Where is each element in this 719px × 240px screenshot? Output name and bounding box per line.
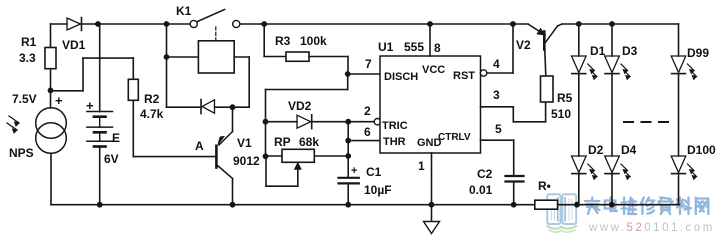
svg-text:6: 6 [364,125,371,139]
node LED column1 bottom [574,202,580,208]
LED D99 [671,56,686,73]
svg-text:www.520101.com: www.520101.com [588,222,715,234]
wire D4 bottom [611,174,613,205]
wire pin4 to rail [487,72,513,74]
diode VD1 [67,18,81,30]
node RP right junction [345,153,351,159]
light arrows into NPS [9,116,19,123]
node relay branch junction on top rail [164,21,170,27]
node A1 below R1 [48,88,54,94]
svg-text:6V: 6V [104,152,119,166]
wire NPS bottom to rail [50,153,52,204]
node battery top junction [95,21,101,27]
svg-text:4.7k: 4.7k [140,107,164,121]
wire to relay coil [167,56,199,58]
svg-text:7: 7 [365,57,372,71]
svg-text:9012: 9012 [233,154,260,168]
LED D1 [578,24,580,56]
svg-text:+: + [351,165,357,177]
resistor R-star [535,200,558,209]
svg-text:D99: D99 [687,46,709,60]
transistor V2 [543,32,546,50]
svg-text:510: 510 [551,107,571,121]
svg-text:100k: 100k [300,34,327,48]
node D3 top junction [609,21,615,27]
svg-text:68k: 68k [299,135,319,149]
LED D4 [605,156,620,173]
svg-text:R1: R1 [21,35,37,49]
svg-text:+: + [86,98,94,113]
wire NPS node bus [51,90,84,92]
svg-text:7.5V: 7.5V [12,92,37,106]
svg-text:R•: R• [538,179,551,193]
svg-text:V2: V2 [516,38,531,52]
wire V1 emitter vertical [232,107,234,131]
svg-text:RP: RP [274,135,291,149]
node R3 branch junction [261,21,267,27]
wire R1 bottom [50,69,52,91]
wire bottom rail left [51,204,535,206]
svg-text:K1: K1 [176,4,192,18]
freewheel diode [200,100,202,114]
node pin2 wire junction [345,119,351,125]
capacitor C2 [506,175,524,177]
watermark background group [547,194,715,234]
svg-text:RST: RST [453,70,475,82]
wire K1 actuator dashed [215,27,217,40]
node V1 collector junction [230,104,236,110]
svg-text:D1: D1 [590,44,606,58]
wire pin2/6 column [347,122,349,178]
transistor V1 [215,146,218,168]
svg-text:C2: C2 [477,167,493,181]
svg-text:10µF: 10µF [364,183,392,197]
wire pin8 [429,24,431,56]
svg-text:D4: D4 [621,143,637,157]
svg-text:R2: R2 [144,92,160,106]
svg-text:U1: U1 [378,40,394,54]
wire D1-D2 [578,74,580,156]
watermark text: pseudo glyphs [585,198,708,215]
svg-text:5: 5 [495,122,502,136]
pin2 inversion bubble [374,119,380,125]
wire battery column top [99,24,101,112]
svg-text:D2: D2 [588,143,604,157]
pin4 inversion bubble [480,70,486,76]
wire D3-D4 [611,74,613,156]
svg-text:VD2: VD2 [288,99,312,113]
node LED column2 bottom [609,202,615,208]
wire pin7 down to VD2 loop [347,74,349,90]
svg-text:+: + [55,93,63,108]
wire D100 bottom [678,174,680,205]
svg-text:V1: V1 [237,136,252,150]
diode VD2 [266,121,298,123]
switch K1 [190,20,197,27]
resistor R2 [128,79,138,100]
svg-text:TRIC: TRIC [382,120,408,132]
wire relay branch vertical [166,24,168,107]
node relay feed junction [164,54,170,60]
wire pin5 [481,139,514,141]
svg-text:VCC: VCC [422,64,445,76]
wire D99-D100 [678,74,680,156]
capacitor C1 [339,177,359,179]
wire top rail left segment [51,23,68,25]
wire battery bottom [99,147,101,205]
node RP left junction [263,153,269,159]
op-amp U1 555 box [380,56,481,153]
node V2 emitter junction [510,21,516,27]
svg-text:8: 8 [434,41,441,55]
wire R3 branch [263,24,265,57]
svg-text:1: 1 [418,159,425,173]
LED D2 [572,156,587,173]
wire V2 base to R5 [545,50,546,77]
solar cell NPS [36,108,67,139]
svg-text:555: 555 [404,40,424,54]
potentiometer RP [266,155,283,157]
svg-text:C1: C1 [366,165,382,179]
LED D3 [611,24,613,56]
node C1 bottom [345,202,351,208]
node C2 bottom [511,202,517,208]
wire R2 bottom to V1 base [132,100,134,156]
wire NPS top [50,90,52,108]
wire pin1 to ground [431,153,433,220]
svg-text:R3: R3 [275,34,291,48]
node V1 collector bottom [230,202,236,208]
node pin6 junction [345,138,351,144]
svg-text:E: E [112,131,120,145]
svg-text:D100: D100 [687,143,716,157]
wire relay right side [234,56,249,58]
svg-text:0.01: 0.01 [469,183,493,197]
svg-text:2: 2 [364,104,371,118]
svg-text:A: A [195,139,204,153]
watermark book icon [547,194,578,232]
battery E 6V [87,111,113,113]
relay coil K1 box [198,41,234,73]
wire D2 bottom [578,174,580,205]
svg-text:D3: D3 [622,44,638,58]
RP wiper arrow [295,163,301,170]
svg-text:THR: THR [383,136,406,148]
resistor R3 [286,52,309,61]
svg-text:NPS: NPS [9,146,34,160]
wire to pin2 bubble [348,121,374,123]
LED D100 [671,156,686,173]
node pin7 junction [345,71,351,77]
svg-text:3.3: 3.3 [19,51,36,65]
node battery bottom [97,202,103,208]
continuation dashes [624,121,670,123]
wire bottom rail right [558,204,680,206]
wire R3 to pin7 [309,56,348,58]
svg-text:DISCH: DISCH [384,71,418,83]
wire D99 corner [678,24,680,56]
svg-text:4: 4 [493,57,500,71]
wire pin3 OUT [481,106,514,108]
wire diode to left rail [167,106,202,108]
wire top-left corner down to R1 [50,24,52,48]
resistor R1 [45,48,56,69]
svg-text:3: 3 [493,88,500,102]
resistor R5 [541,76,554,102]
node pin8 junction [427,21,433,27]
ground symbol [424,222,440,234]
node VD2 left junction [263,119,269,125]
node D1 top junction [576,21,582,27]
svg-text:R5: R5 [557,91,573,105]
wire LED top rail [562,23,679,25]
svg-text:VD1: VD1 [62,38,86,52]
svg-text:CTRLV: CTRLV [438,132,471,143]
